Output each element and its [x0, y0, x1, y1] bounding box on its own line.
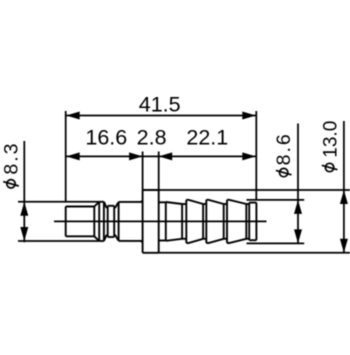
label phi 13.0	[321, 121, 342, 172]
neck	[159, 202, 166, 240]
svg-text:16.6: 16.6	[85, 125, 127, 149]
groove center ridge	[108, 206, 115, 237]
centerline	[54, 220, 267, 222]
svg-text:8.3: 8.3	[0, 141, 22, 174]
phi13 dimension line with arrows	[340, 121, 348, 253]
barb 3	[206, 200, 227, 243]
svg-text:41.5: 41.5	[139, 92, 181, 116]
phi13 extension lines	[159, 190, 350, 253]
tail end ring	[249, 203, 256, 241]
extension line flange left	[142, 152, 144, 191]
barb 4	[227, 200, 249, 243]
phi8.3 dimension line with arrows	[20, 141, 28, 242]
extension line right (tail end)	[255, 111, 257, 200]
extension line flange right	[158, 152, 160, 191]
svg-text:8.6: 8.6	[273, 132, 295, 165]
phi8.3 extension lines	[18, 202, 99, 241]
svg-text:22.1: 22.1	[186, 125, 228, 149]
svg-text:13.0: 13.0	[321, 121, 342, 158]
svg-text:2.8: 2.8	[137, 125, 167, 149]
coupling groove	[104, 202, 119, 241]
body collar	[119, 201, 143, 243]
phi8.6 dimension line with arrows	[294, 124, 302, 244]
dimension line 41.5 with arrows	[66, 112, 257, 120]
barb 1 (lead taper)	[166, 202, 187, 241]
label phi 8.6	[273, 132, 295, 177]
nose chamfer	[94, 202, 99, 241]
hex flange	[143, 190, 159, 253]
barb 2	[186, 200, 206, 243]
nose tip cylinder	[66, 207, 95, 237]
extension line left (nose tip)	[65, 111, 67, 201]
label phi 8.3	[0, 141, 22, 188]
dimension line 16.6 / 2.8 / 22.1 with arrows	[66, 152, 257, 160]
phi8.6 extension lines	[247, 200, 305, 244]
front land ring	[99, 202, 104, 241]
